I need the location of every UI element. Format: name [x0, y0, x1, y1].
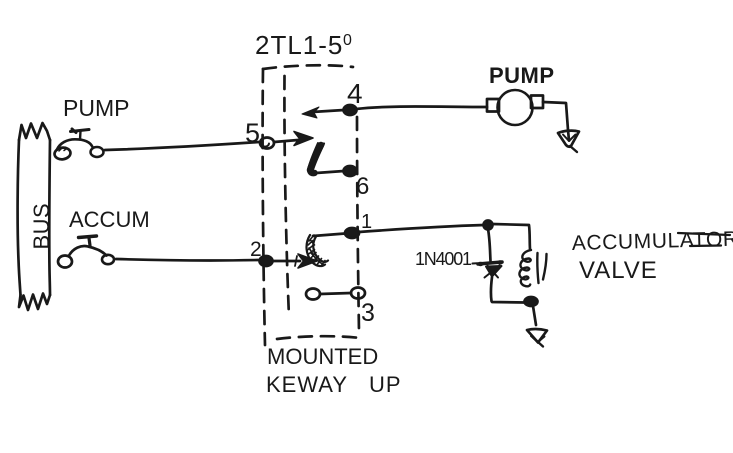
wire: motor to ground [543, 102, 568, 130]
svg-text:UP: UP [369, 372, 402, 397]
svg-text:ACCUM: ACCUM [69, 207, 150, 232]
svg-text:ACCUMULATOR: ACCUMULATOR [572, 228, 733, 255]
switch body dashed outline [263, 65, 360, 345]
diode D1 anode wire [488, 229, 491, 261]
wire: junction to coil top [492, 224, 530, 249]
switch S2 (accum pushbutton) [58, 236, 114, 268]
svg-text:1N4001: 1N4001 [415, 249, 472, 269]
wire: pin 4 to left arrow (pole contact) [302, 107, 344, 118]
svg-text:BUS: BUS [29, 203, 54, 250]
svg-text:KEWAY: KEWAY [266, 372, 348, 397]
wire: lever to pin 6 [316, 171, 344, 173]
switch lever (bottom pole, hatched) [307, 235, 328, 266]
relay coil L1 (accumulator valve) [519, 250, 546, 286]
wire: pin 1 to junction [359, 225, 484, 232]
svg-text:5: 5 [245, 118, 260, 148]
wire: pin 5 arrow into switch [274, 132, 313, 146]
switch S1 (pump pushbutton) [54, 129, 104, 160]
wire: coil bottom to ground [533, 306, 536, 325]
pin 4 terminal [344, 105, 357, 115]
diode D1 1N4001 [473, 260, 504, 277]
coil bottom terminal [525, 297, 538, 306]
bus BUS [18, 123, 50, 310]
strike over TOR [678, 233, 730, 246]
wire: accum switch to pin 2 [116, 259, 258, 260]
wire: diode cathode down and right to coil bottom [491, 277, 525, 303]
pin 6 terminal [344, 166, 357, 176]
pin 3 contacts [306, 288, 365, 300]
svg-text:VALVE: VALVE [579, 257, 658, 284]
ground (pump) [558, 130, 579, 152]
svg-text:PUMP: PUMP [63, 95, 129, 121]
svg-text:3: 3 [361, 299, 375, 327]
svg-text:6: 6 [356, 173, 369, 200]
pin 1 terminal [345, 228, 359, 238]
wire: pin 4 to pump motor [356, 107, 487, 110]
motor M1 (pump motor) [487, 90, 543, 125]
svg-text:0: 0 [343, 32, 352, 49]
svg-text:MOUNTED: MOUNTED [267, 344, 378, 369]
svg-text:PUMP: PUMP [489, 63, 555, 88]
pin 5 terminal [260, 138, 274, 149]
svg-text:1: 1 [361, 211, 372, 233]
node A junction [484, 221, 493, 230]
pin 2 terminal [260, 256, 273, 266]
wire: lever to pin 1 [313, 234, 345, 237]
switch lever (top pole) [308, 143, 324, 173]
wire: pump switch to pin 5 [105, 142, 259, 150]
ground (valve) [527, 329, 547, 346]
svg-text:2TL1-5: 2TL1-5 [255, 30, 343, 60]
wire: pin 2 arrow into switch [273, 254, 317, 268]
